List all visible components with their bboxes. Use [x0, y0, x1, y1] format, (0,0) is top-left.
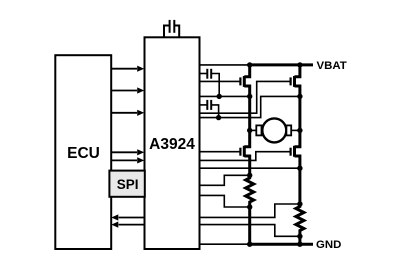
- svg-text:ECU: ECU: [67, 145, 100, 162]
- svg-text:A3924: A3924: [149, 136, 195, 153]
- svg-text:GND: GND: [316, 239, 341, 251]
- svg-text:VBAT: VBAT: [317, 60, 347, 72]
- svg-text:SPI: SPI: [117, 177, 139, 192]
